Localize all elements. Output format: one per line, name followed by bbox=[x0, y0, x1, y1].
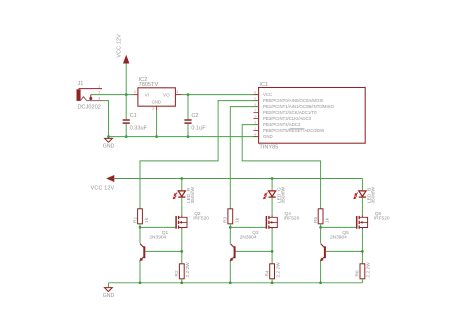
wire LED LED_R cathode to Q2 drain bbox=[181, 197, 183, 215]
transistor Q1 2N3904 npn bbox=[140, 244, 146, 262]
capacitor C2 top wire bbox=[187, 95, 189, 120]
svg-text:350mW: 350mW bbox=[280, 187, 286, 204]
connector J1 pin 1 bbox=[79, 88, 103, 90]
capacitor C1 bottom wire bbox=[125, 124, 127, 137]
ground GND2 stub bbox=[107, 283, 109, 288]
supply VCC 12V rail arrow head bbox=[107, 175, 114, 181]
svg-text:C2: C2 bbox=[191, 113, 198, 119]
svg-text:GND: GND bbox=[152, 100, 161, 105]
svg-text:2: 2 bbox=[152, 107, 154, 111]
wire PB4 to channel 3 gate resistor bbox=[242, 125, 320, 209]
svg-text:1k: 1k bbox=[234, 217, 240, 223]
svg-text:TINY85: TINY85 bbox=[259, 144, 278, 150]
svg-text:IRF520: IRF520 bbox=[193, 215, 209, 221]
wire Q1 base to source node bbox=[145, 250, 182, 252]
junction Q3 base on source node bbox=[271, 250, 274, 253]
connector J1 tip stub bbox=[90, 95, 92, 98]
resistor R5 1k box bbox=[318, 209, 323, 224]
wire bottom ground rail bbox=[108, 282, 362, 284]
wire IC2 VO to IC1 VCC bbox=[182, 94, 259, 96]
wire Q3 emitter to ground rail bbox=[229, 261, 231, 283]
wire PB1 to channel 2 gate resistor bbox=[230, 107, 258, 209]
svg-text:1: 1 bbox=[254, 126, 256, 130]
transistor Q5 2N3904 npn bbox=[320, 244, 326, 262]
svg-text:7: 7 bbox=[254, 108, 256, 112]
wire PB0 to channel 1 gate resistor bbox=[140, 101, 259, 209]
mcu IC1 pin stub PB1/PCINT1/AIN1/OC0B/INT0/MISO bbox=[253, 106, 258, 108]
regulator IC2 pin 2 stub bbox=[156, 106, 158, 110]
transistor Q2 IRF520 nmos bbox=[176, 215, 187, 229]
svg-text:2.2 2W: 2.2 2W bbox=[366, 262, 372, 278]
svg-text:6: 6 bbox=[254, 102, 256, 106]
junction C2 on ground rail bbox=[187, 135, 190, 138]
wire R5 bottom to gate node bbox=[320, 224, 322, 228]
ground GND1 stub bbox=[108, 137, 110, 139]
svg-text:PB2/PCINT2/SCK/ADC1/T0: PB2/PCINT2/SCK/ADC1/T0 bbox=[263, 110, 317, 115]
junction VCC/C1 on top net bbox=[125, 93, 128, 96]
mcu IC1 pin stub PB3/PCINT3/CLKI/ADC3 bbox=[253, 118, 258, 120]
connector J1 tip contact bbox=[89, 97, 92, 100]
svg-text:VO: VO bbox=[163, 92, 170, 97]
svg-text:IRF520: IRF520 bbox=[284, 215, 300, 221]
wire LED LED_B cathode to Q6 drain bbox=[361, 197, 363, 215]
wire Q3 base to source node bbox=[236, 250, 273, 252]
svg-text:GND: GND bbox=[263, 134, 273, 139]
junction IC2 GND on ground rail bbox=[155, 135, 158, 138]
resistor R6 2.2 2W box bbox=[360, 264, 365, 279]
capacitor C1 plates bbox=[123, 120, 130, 123]
wire Q4 source down bbox=[271, 229, 273, 263]
junction Q1 emitter on ground rail bbox=[139, 281, 142, 284]
svg-text:2N3904: 2N3904 bbox=[330, 235, 347, 241]
wire LED LED_B anode bbox=[361, 179, 363, 191]
mcu IC1 pin stub GND bbox=[253, 136, 258, 138]
junction Q1 base on source node bbox=[180, 250, 183, 253]
wire LED LED_G cathode to Q4 drain bbox=[271, 197, 273, 215]
transistor Q3 2N3904 npn bbox=[230, 244, 236, 262]
svg-text:R6: R6 bbox=[355, 270, 361, 276]
svg-text:7805TV: 7805TV bbox=[139, 82, 159, 88]
capacitor C2 plates bbox=[184, 120, 191, 123]
svg-text:3: 3 bbox=[98, 97, 100, 101]
junction gate node 2 bbox=[229, 226, 232, 229]
svg-text:GND: GND bbox=[103, 293, 115, 299]
mcu IC1 pin stub PB0/PCINT0/AIN0/OC0A/MOSI bbox=[253, 100, 258, 102]
svg-text:2N3904: 2N3904 bbox=[149, 235, 166, 241]
LED LED_G 350mW bbox=[263, 191, 275, 199]
wire gate node to Q5 collector bbox=[320, 227, 322, 243]
svg-text:4: 4 bbox=[254, 132, 256, 136]
svg-text:GND: GND bbox=[103, 144, 115, 150]
wire gate node to Q6 gate bbox=[321, 226, 357, 228]
svg-text:0.1uF: 0.1uF bbox=[191, 125, 206, 131]
svg-text:0.33uF: 0.33uF bbox=[130, 125, 148, 131]
svg-text:C1: C1 bbox=[130, 113, 137, 119]
svg-text:350mW: 350mW bbox=[190, 187, 196, 204]
LED LED_B 350mW bbox=[354, 191, 366, 199]
transistor Q6 IRF520 nmos bbox=[357, 215, 368, 229]
ground GND2 symbol bbox=[105, 288, 113, 292]
mcu IC1 pin stub PB5/PCINT5/RESET/ADC0/DW bbox=[253, 130, 258, 132]
junction LED LED_G anode on rail bbox=[271, 177, 274, 180]
svg-text:PB3/PCINT3/CLKI/ADC3: PB3/PCINT3/CLKI/ADC3 bbox=[263, 116, 312, 121]
svg-text:PB1/PCINT1/AIN1/OC0B/INT0/MISO: PB1/PCINT1/AIN1/OC0B/INT0/MISO bbox=[263, 104, 335, 109]
svg-text:2: 2 bbox=[254, 114, 256, 118]
svg-text:2.2 2W: 2.2 2W bbox=[275, 262, 281, 278]
svg-text:IRF520: IRF520 bbox=[374, 215, 390, 221]
wire Q5 emitter to ground rail bbox=[320, 261, 322, 283]
wire Q2 source down bbox=[181, 229, 183, 263]
mcu IC1 box bbox=[259, 88, 366, 144]
junction gate node 3 bbox=[319, 226, 322, 229]
junction J1 ground corner bbox=[107, 135, 110, 138]
wire Q5 base to source node bbox=[326, 250, 363, 252]
LED LED_R 350mW bbox=[173, 191, 185, 199]
svg-text:3: 3 bbox=[254, 120, 256, 124]
wire R4 bottom to ground rail bbox=[271, 279, 273, 283]
junction Q5 base on source node bbox=[361, 250, 364, 253]
svg-text:1: 1 bbox=[134, 90, 136, 94]
svg-text:2.2 2W: 2.2 2W bbox=[185, 262, 191, 278]
resistor R4 2.2 2W box bbox=[270, 264, 275, 279]
wire R6 bottom to ground rail bbox=[361, 279, 363, 283]
capacitor C1 top wire bbox=[125, 95, 127, 120]
svg-text:2: 2 bbox=[98, 91, 100, 95]
svg-text:J1: J1 bbox=[78, 81, 84, 87]
svg-text:R1: R1 bbox=[132, 217, 138, 223]
regulator IC2 pin 1 stub bbox=[133, 94, 138, 96]
regulator IC2 box bbox=[138, 88, 176, 106]
junction LED LED_R anode on rail bbox=[180, 177, 183, 180]
wire gate node to Q3 collector bbox=[229, 227, 231, 243]
svg-text:5: 5 bbox=[254, 96, 256, 100]
svg-text:1: 1 bbox=[98, 85, 100, 89]
wire J1 tip to IC2 VI bbox=[91, 94, 134, 96]
junction R4 on ground rail bbox=[271, 281, 274, 284]
junction gate node 1 bbox=[139, 226, 142, 229]
supply VCC 12V stem bbox=[125, 63, 127, 95]
svg-text:1k: 1k bbox=[325, 217, 331, 223]
resistor R3 1k box bbox=[228, 209, 233, 224]
wire LED LED_G anode bbox=[271, 179, 273, 191]
svg-text:VI: VI bbox=[145, 92, 149, 97]
junction C1 on ground rail bbox=[125, 135, 128, 138]
wire gate node to Q1 collector bbox=[139, 227, 141, 243]
regulator IC2 pin 3 stub bbox=[175, 94, 181, 96]
wire LED supply rail 12V bbox=[114, 178, 363, 180]
wire R1 bottom to gate node bbox=[139, 224, 141, 228]
svg-text:PB4/PCINT4/ADC2: PB4/PCINT4/ADC2 bbox=[263, 122, 301, 127]
svg-text:R2: R2 bbox=[174, 270, 180, 276]
resistor R1 1k box bbox=[138, 209, 143, 224]
svg-text:2N3904: 2N3904 bbox=[240, 235, 257, 241]
wire J1 sleeve to ground rail bbox=[102, 101, 109, 137]
connector J1 pin 3 stub bbox=[87, 100, 102, 102]
mcu IC1 pin stub VCC bbox=[253, 94, 258, 96]
svg-text:1k: 1k bbox=[144, 217, 150, 223]
wire IC2 GND to ground rail bbox=[156, 111, 158, 137]
svg-text:VCC 12V: VCC 12V bbox=[91, 185, 115, 191]
svg-text:IC1: IC1 bbox=[259, 82, 268, 88]
wire Q6 source down bbox=[361, 229, 363, 263]
wire LED LED_R anode bbox=[181, 179, 183, 191]
junction Q3 emitter on ground rail bbox=[229, 281, 232, 284]
svg-text:VCC 12V: VCC 12V bbox=[116, 34, 122, 58]
wire gate node to Q4 gate bbox=[230, 226, 266, 228]
svg-text:R5: R5 bbox=[313, 217, 319, 223]
svg-text:8: 8 bbox=[254, 90, 256, 94]
wire Q1 emitter to ground rail bbox=[139, 261, 141, 283]
ground GND1 symbol bbox=[105, 138, 113, 142]
capacitor C2 bottom wire bbox=[187, 124, 189, 137]
wire R2 bottom to ground rail bbox=[181, 279, 183, 283]
connector J1 sleeve contact bbox=[80, 97, 86, 101]
mcu IC1 pin stub PB2/PCINT2/SCK/ADC1/T0 bbox=[253, 112, 258, 114]
resistor R2 2.2 2W box bbox=[179, 264, 184, 279]
svg-text:DCJ0202: DCJ0202 bbox=[78, 104, 101, 110]
connector J1 body bbox=[77, 90, 80, 101]
supply VCC 12V arrow head bbox=[123, 56, 129, 64]
svg-text:R3: R3 bbox=[223, 217, 229, 223]
mcu IC1 pin stub PB4/PCINT4/ADC2 bbox=[253, 124, 258, 126]
svg-text:350mW: 350mW bbox=[371, 187, 377, 204]
wire R3 bottom to gate node bbox=[229, 224, 231, 228]
mcu IC1 RESET overline bbox=[290, 128, 305, 130]
svg-text:VCC: VCC bbox=[263, 92, 272, 97]
wire upper ground rail bbox=[109, 136, 259, 138]
wire gate node to Q2 gate bbox=[140, 226, 176, 228]
svg-text:3: 3 bbox=[176, 90, 178, 94]
svg-text:PB0/PCINT0/AIN0/OC0A/MOSI: PB0/PCINT0/AIN0/OC0A/MOSI bbox=[263, 98, 323, 103]
junction Q5 emitter on ground rail bbox=[319, 281, 322, 284]
junction R2 on ground rail bbox=[180, 281, 183, 284]
transistor Q4 IRF520 nmos bbox=[266, 215, 277, 229]
svg-text:R4: R4 bbox=[264, 270, 270, 276]
junction C2 on 5V net bbox=[187, 93, 190, 96]
